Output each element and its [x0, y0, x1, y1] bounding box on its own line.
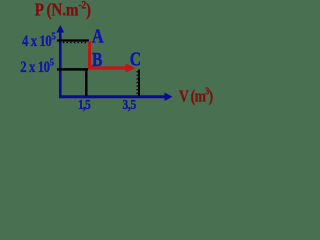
- guide line at 4e5 level (dotted underline): [63, 42, 88, 44]
- vertical guide at V=3.5 below C (dotted): [136, 71, 138, 95]
- svg-text:1,5: 1,5: [78, 97, 90, 112]
- svg-text:3,5: 3,5: [123, 97, 136, 112]
- guide line at 2e5 level: [57, 68, 88, 71]
- svg-text:2 x 105: 2 x 105: [20, 57, 54, 77]
- svg-text:B: B: [92, 48, 103, 70]
- x-axis (V): [59, 93, 173, 102]
- process line A to B (red vertical): [88, 41, 91, 70]
- guide line at 4e5 level (solid): [57, 39, 89, 41]
- y-axis (P): [56, 25, 64, 98]
- svg-text:4 x 105: 4 x 105: [22, 31, 56, 51]
- svg-text:V (m3): V (m3): [179, 85, 213, 105]
- svg-text:A: A: [92, 25, 104, 47]
- vertical guide at V=3.5 below C (solid): [138, 70, 140, 97]
- process arrow B to C (red horizontal with arrowhead): [88, 66, 127, 69]
- vertical guide at V=1.5 below B: [85, 69, 87, 96]
- svg-text:C: C: [130, 48, 141, 70]
